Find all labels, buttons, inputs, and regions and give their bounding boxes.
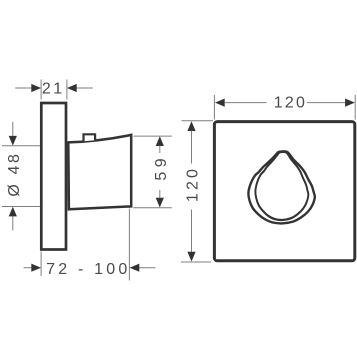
dimension 120 left extension lines: [181, 121, 213, 262]
knob drop inner face outline: [255, 152, 308, 220]
dimension 59 lines and arrows: [156, 136, 164, 207]
handle profile: [68, 135, 131, 209]
dimension 120 top lines and arrows: [215, 99, 355, 107]
plate side view: [41, 103, 66, 250]
dimension Ø48 lines and arrows: [9, 122, 17, 231]
escutcheon square front view: [214, 122, 354, 261]
svg-text:Ø 48: Ø 48: [6, 152, 23, 197]
dimension 21 lines and arrows: [15, 84, 93, 92]
svg-text:120: 120: [274, 95, 307, 112]
dimension 72-100 lines and arrows: [24, 264, 156, 272]
svg-text:72 - 100: 72 - 100: [46, 261, 130, 278]
dimension 21 extension lines: [41, 80, 67, 100]
dimension 72-100 extension lines: [41, 209, 129, 281]
svg-text:21: 21: [42, 81, 65, 98]
dimension 59 extension lines: [133, 136, 172, 208]
svg-text:120: 120: [184, 166, 201, 202]
knob drop outer outline: [248, 151, 314, 223]
dimension 120 top extension lines: [214, 95, 355, 120]
button on handle top: [84, 134, 96, 141]
svg-text:59: 59: [153, 154, 170, 181]
dimension 120 left lines and arrows: [187, 121, 195, 261]
dimension Ø48 extension lines: [2, 146, 40, 207]
